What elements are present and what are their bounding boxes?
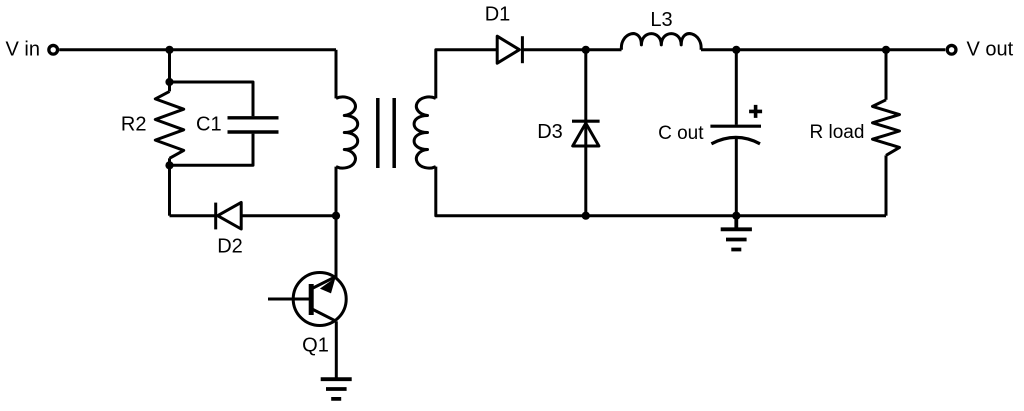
- svg-text:V out: V out: [967, 39, 1014, 61]
- transistor Q1 base bar: [309, 284, 314, 315]
- wire transformer primary bottom lead down to Q1 collector: [335, 167, 338, 278]
- wire D1 cathode to L3: [522, 48, 621, 51]
- ground symbol below C out: [721, 216, 752, 250]
- svg-text:D1: D1: [485, 4, 511, 26]
- wire R load top lead: [885, 50, 888, 100]
- junction dot at top rail x=169.5: [165, 46, 173, 54]
- wire C out top lead: [735, 50, 738, 125]
- plus sign for C out polarity: [749, 105, 762, 118]
- diode D1 triangle: [497, 36, 519, 63]
- transistor Q1 emitter diagonal: [312, 309, 336, 321]
- wire L3 to V out: [701, 48, 945, 51]
- wire C out bottom lead: [735, 139, 738, 216]
- diode D1 cathode bar: [521, 36, 524, 63]
- junction dot C out bottom node: [732, 212, 740, 220]
- transistor Q1 collector diagonal with arrow: [312, 276, 336, 288]
- svg-text:D2: D2: [217, 236, 243, 258]
- junction dot D2 / transformer / Q1 node: [332, 212, 340, 220]
- junction dot D3 top node: [582, 46, 590, 54]
- wire C1 bottom branch: [170, 134, 254, 166]
- resistor R2 zigzag: [155, 91, 183, 158]
- inductor L3 winding: [621, 34, 701, 50]
- capacitor C out curved plate: [711, 137, 760, 143]
- wire D2 rail right segment: [241, 214, 336, 217]
- junction dot R2/C1 top node: [165, 78, 173, 86]
- diode D3 triangle: [573, 123, 599, 146]
- transistor Q1 arrow: [320, 278, 336, 294]
- wire transformer primary top lead: [335, 50, 338, 99]
- wire C1 top branch: [170, 82, 254, 116]
- resistor R load zigzag: [873, 100, 900, 156]
- diode D2 triangle: [218, 202, 242, 229]
- wire left branch vertical from top rail to R2 top: [168, 50, 171, 92]
- wire R load bottom lead: [885, 155, 888, 215]
- diode D3 cathode bar: [572, 120, 600, 123]
- wire top-left rail V in to transformer primary: [59, 48, 336, 51]
- node V in terminal: [49, 45, 58, 54]
- svg-text:D3: D3: [537, 121, 563, 143]
- transformer primary winding: [336, 97, 358, 168]
- junction dot R load top node: [882, 46, 890, 54]
- transistor Q1 base wire: [268, 298, 309, 301]
- junction dot R2/C1 bottom node: [165, 161, 173, 169]
- transformer core line right: [392, 98, 396, 168]
- capacitor C out flat plate: [710, 125, 761, 128]
- node V out terminal: [947, 45, 956, 54]
- svg-text:C1: C1: [196, 114, 222, 136]
- svg-text:L3: L3: [650, 9, 672, 31]
- ground symbol below Q1: [321, 379, 352, 399]
- wire Q1 emitter to ground: [335, 321, 338, 379]
- capacitor C1 bottom plate: [228, 130, 279, 133]
- svg-text:C out: C out: [658, 123, 704, 144]
- transformer secondary winding: [414, 97, 436, 168]
- junction dot D3 bottom node: [582, 212, 590, 220]
- svg-text:V in: V in: [6, 39, 40, 61]
- wire D3 vertical: [584, 50, 587, 216]
- transistor Q1 circle: [293, 273, 346, 326]
- wire R2 bottom to D2 rail: [168, 158, 171, 215]
- wire transformer secondary bottom lead to bottom rail: [436, 167, 886, 216]
- wire D2 rail left segment: [170, 214, 216, 217]
- svg-text:R2: R2: [121, 114, 147, 136]
- wire transformer secondary top lead to D1: [436, 50, 497, 99]
- svg-text:R load: R load: [810, 122, 865, 143]
- diode D2 cathode bar: [214, 203, 217, 230]
- transformer core line left: [376, 98, 380, 168]
- junction dot C out top node: [732, 46, 740, 54]
- capacitor C1 top plate: [228, 116, 279, 119]
- svg-text:Q1: Q1: [302, 335, 329, 357]
